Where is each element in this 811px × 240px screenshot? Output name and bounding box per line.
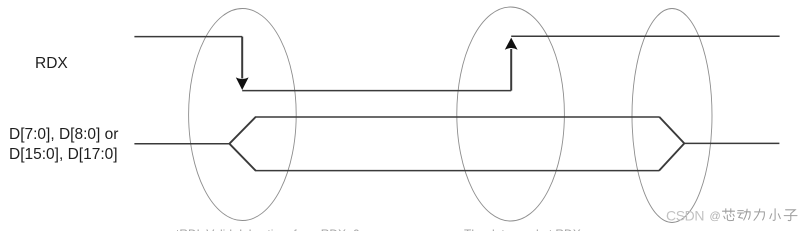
- wire RDX high segment (left): [134, 36, 242, 38]
- watermark glyph 子: [784, 210, 797, 221]
- svg-text:@: @: [710, 211, 721, 223]
- wire RDX falling edge: [241, 37, 243, 79]
- highlight ellipse E1 (fall-edge region): [189, 9, 297, 221]
- data bus valid-window top rail: [255, 116, 660, 118]
- data bus left split: upper diagonal: [229, 117, 255, 144]
- svg-text:tRDL Valid delay time from RDX: tRDL Valid delay time from RDX=0: [176, 227, 360, 231]
- svg-text:D[7:0], D[8:0] or: D[7:0], D[8:0] or: [9, 126, 118, 143]
- wire RDX rising edge: [510, 49, 512, 91]
- data bus left split: lower diagonal: [229, 144, 255, 171]
- data bus right merge: lower diagonal: [659, 143, 684, 170]
- wire data bus lead-in (left single rail): [134, 143, 230, 145]
- watermark glyph 动: [738, 209, 751, 220]
- svg-text:D[15:0], D[17:0]: D[15:0], D[17:0]: [9, 146, 118, 163]
- highlight ellipse E2 (rise-edge region): [457, 7, 565, 221]
- watermark glyph 芯: [723, 209, 735, 221]
- wire RDX high segment (right): [511, 35, 779, 37]
- data bus valid-window bottom rail: [255, 170, 659, 172]
- watermark glyph 力: [754, 209, 764, 220]
- wire data bus lead-out (right single rail): [684, 142, 780, 144]
- data bus right merge: upper diagonal: [659, 117, 684, 143]
- svg-text:The data read at RDX: The data read at RDX: [464, 227, 581, 231]
- svg-text:RDX: RDX: [35, 55, 68, 72]
- svg-text:CSDN: CSDN: [666, 208, 704, 224]
- arrowhead down (RDX fall): [236, 77, 249, 90]
- watermark glyph 小: [770, 209, 780, 221]
- highlight ellipse E3 (data-latch region): [632, 9, 712, 223]
- arrowhead up (RDX rise): [505, 38, 518, 50]
- wire RDX low segment: [242, 90, 511, 92]
